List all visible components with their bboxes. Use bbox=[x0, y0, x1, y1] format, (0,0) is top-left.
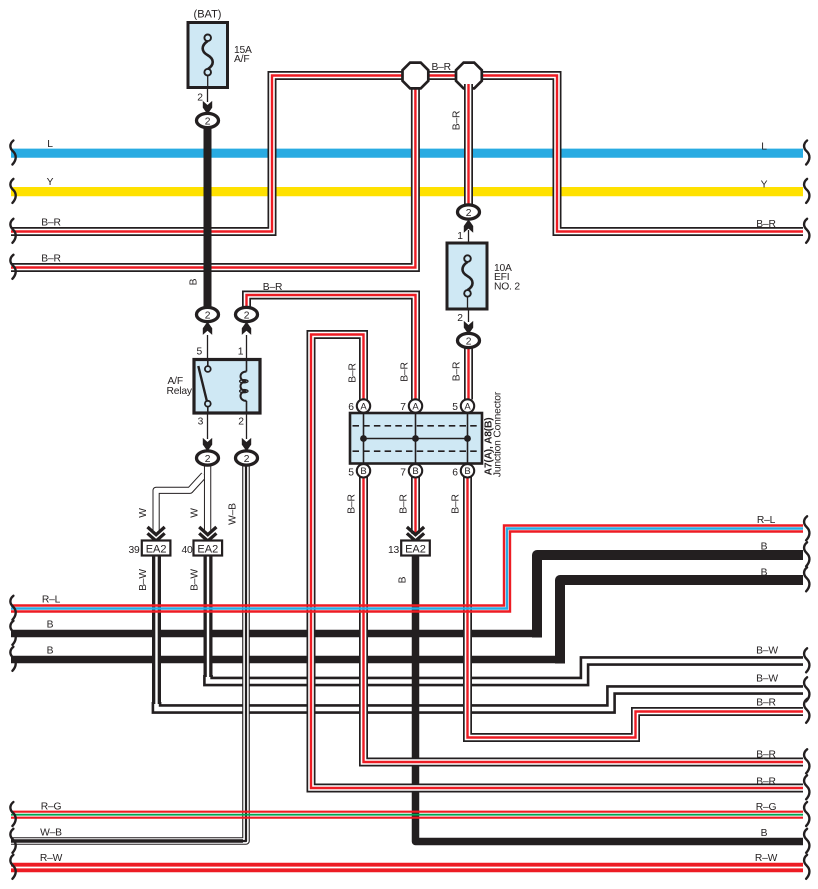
svg-text:1: 1 bbox=[457, 231, 463, 242]
junction pin circle 5(A) bbox=[461, 399, 474, 412]
svg-text:A: A bbox=[360, 401, 367, 412]
junction connector A7(A),A8(B) box bbox=[350, 413, 482, 464]
break symbol R-G bus left bbox=[10, 802, 15, 826]
svg-text:W: W bbox=[190, 508, 201, 518]
break symbol B-R bus 1 left bbox=[10, 219, 15, 243]
wire B bus B: left run, corner, right run bbox=[11, 656, 557, 664]
svg-text:2: 2 bbox=[457, 313, 463, 324]
svg-text:L: L bbox=[761, 142, 767, 153]
svg-text:B–R: B–R bbox=[756, 219, 775, 230]
svg-text:R–L: R–L bbox=[757, 515, 776, 526]
break symbol B bus B left bbox=[10, 647, 15, 671]
svg-text:B: B bbox=[360, 466, 366, 477]
svg-text:B–R: B–R bbox=[452, 111, 463, 130]
break symbol W-B bus left bbox=[10, 829, 15, 853]
svg-text:R–L: R–L bbox=[42, 595, 61, 606]
svg-text:B–R: B–R bbox=[431, 62, 450, 73]
wire B-R net into junction 6(A): up, left, down, right bus bbox=[311, 335, 803, 789]
junction dashed internal rows bbox=[353, 425, 480, 427]
svg-text:2: 2 bbox=[205, 310, 211, 321]
junction pin circle 6(A) bbox=[357, 399, 370, 412]
svg-text:B: B bbox=[47, 646, 54, 657]
svg-text:6: 6 bbox=[452, 468, 458, 479]
connector EA2 39 chevrons and box bbox=[148, 527, 165, 535]
break symbol B bus A right bbox=[804, 542, 809, 566]
wire B-R bus 2 (left bus rising to octagon J1) bbox=[11, 80, 415, 268]
break symbol Y bus right bbox=[804, 179, 809, 203]
A/F relay box bbox=[194, 360, 260, 414]
svg-text:B–R: B–R bbox=[451, 494, 462, 513]
svg-text:B: B bbox=[761, 568, 768, 579]
svg-text:B–W: B–W bbox=[190, 569, 201, 591]
svg-text:L: L bbox=[47, 139, 53, 150]
svg-text:EA2: EA2 bbox=[405, 543, 426, 555]
break symbol B-R 6A bus right bbox=[804, 775, 809, 799]
relay coil feed: up arrow into oval at pin 1 bbox=[246, 335, 248, 360]
wire Y bus (yellow) bbox=[11, 187, 803, 196]
svg-text:3: 3 bbox=[198, 417, 204, 428]
break symbol B-W bus 1 right bbox=[804, 648, 809, 672]
junction internal bus with nodes bbox=[364, 438, 468, 440]
wire B thick from fuse 15A down to relay feed oval bbox=[204, 125, 212, 310]
connector oval 2 below EFI fuse bbox=[458, 333, 480, 347]
break symbol B-W bus 2 right bbox=[804, 677, 809, 701]
break symbol R-W bus right bbox=[804, 855, 809, 879]
svg-text:A: A bbox=[412, 401, 419, 412]
svg-text:W–B: W–B bbox=[228, 503, 239, 525]
svg-text:Junction Connector: Junction Connector bbox=[493, 391, 504, 477]
junction pin circle 6(B) bbox=[461, 464, 474, 477]
break symbol R-L bus right bbox=[804, 516, 809, 540]
fuse 15A A/F box bbox=[188, 23, 228, 88]
svg-text:R–G: R–G bbox=[41, 802, 62, 813]
svg-text:B–R: B–R bbox=[756, 777, 775, 788]
svg-text:40: 40 bbox=[181, 545, 193, 556]
break symbol R-L bus left bbox=[10, 596, 15, 620]
pin 2 lead of EFI fuse with down arrow into oval bbox=[468, 309, 470, 322]
svg-text:R–W: R–W bbox=[755, 853, 778, 864]
wire B-R relay coil net: oval up, right, down to 7(A) bbox=[247, 295, 416, 400]
break symbol L bus right bbox=[804, 141, 809, 165]
svg-text:B–W: B–W bbox=[138, 569, 149, 591]
svg-text:B: B bbox=[761, 542, 768, 553]
svg-text:2: 2 bbox=[205, 116, 211, 127]
break symbol B-R bus 1 right bbox=[804, 219, 809, 243]
wire R-G bus (red/green/red) bbox=[11, 811, 803, 813]
EFI NO.2 fuse box bbox=[447, 243, 487, 309]
svg-text:7: 7 bbox=[400, 402, 406, 413]
svg-text:B–R: B–R bbox=[756, 750, 775, 761]
break symbol B bus A left bbox=[10, 621, 15, 645]
break symbol B-R bus 2 left bbox=[10, 255, 15, 279]
wire B-R bus 1 (left, top jumper, right) bbox=[11, 76, 803, 232]
svg-text:B–R: B–R bbox=[41, 254, 60, 265]
svg-text:B–R: B–R bbox=[41, 218, 60, 229]
svg-text:Y: Y bbox=[47, 177, 54, 188]
svg-text:B–R: B–R bbox=[399, 494, 410, 513]
fuse EFI symbol bbox=[462, 262, 472, 290]
svg-text:A/F: A/F bbox=[234, 54, 249, 65]
svg-text:B: B bbox=[761, 828, 768, 839]
connector EA2 13 chevrons and box bbox=[407, 527, 424, 535]
svg-text:B: B bbox=[464, 466, 470, 477]
oval 2 above EFI fuse with up arrow bbox=[468, 230, 470, 243]
wire W-B net from relay pin 2: down then left bus bbox=[11, 465, 246, 841]
svg-text:39: 39 bbox=[128, 545, 140, 556]
wire B-R from EFI fuse oval down to junction 5(A) bbox=[464, 345, 473, 400]
svg-text:2: 2 bbox=[205, 454, 211, 465]
relay feed: up arrow into oval at pin 5 bbox=[207, 335, 209, 360]
svg-text:R–G: R–G bbox=[756, 802, 777, 813]
svg-text:7: 7 bbox=[400, 468, 406, 479]
junction pin circle 7(B) bbox=[409, 464, 422, 477]
break symbol L bus left bbox=[10, 141, 15, 165]
svg-text:5: 5 bbox=[197, 347, 203, 358]
svg-text:W–B: W–B bbox=[40, 828, 62, 839]
octagon connector J1 bbox=[403, 63, 429, 89]
svg-text:6: 6 bbox=[348, 402, 354, 413]
svg-text:B: B bbox=[189, 278, 200, 285]
svg-text:2: 2 bbox=[244, 454, 250, 465]
svg-text:W: W bbox=[138, 508, 149, 518]
svg-text:B: B bbox=[412, 466, 418, 477]
break symbol B bus 13 right bbox=[804, 829, 809, 853]
break symbol B-R 6B bus right bbox=[804, 699, 809, 723]
wire B-R net from junction 6(B): down, right, up, right bus bbox=[468, 477, 804, 738]
relay switch contact bbox=[207, 360, 209, 367]
wire B-R from octagon J2 down to EFI fuse oval bbox=[464, 84, 473, 206]
svg-text:(BAT): (BAT) bbox=[194, 9, 222, 21]
wire R-W bus (red with white stripe) bbox=[11, 863, 803, 873]
connector EA2 40 chevrons and box bbox=[199, 527, 216, 535]
svg-text:2: 2 bbox=[244, 310, 250, 321]
svg-text:R–W: R–W bbox=[40, 853, 63, 864]
wire B bus A: left run, corner, right run bbox=[11, 630, 534, 638]
break symbol B-R 5B bus right bbox=[804, 749, 809, 773]
wire W straight from relay pin 3 oval to EA2 40 bbox=[204, 465, 211, 532]
svg-text:2: 2 bbox=[466, 208, 472, 219]
wire B thick from EA2 13 down then right bus bbox=[416, 556, 804, 842]
break symbol Y bus left bbox=[10, 179, 15, 203]
wire B-R from junction 7(B) to EA2 13 bbox=[411, 477, 420, 534]
svg-text:2: 2 bbox=[466, 336, 472, 347]
svg-text:B–R: B–R bbox=[347, 494, 358, 513]
svg-text:B: B bbox=[398, 576, 409, 583]
svg-text:B–R: B–R bbox=[400, 362, 411, 381]
wire R-L net: left bus, riser, right bus (red/blue/red) bbox=[11, 526, 803, 612]
svg-text:B–W: B–W bbox=[756, 674, 778, 685]
wire B-W net from EA2 39: down, right, up, right bus bbox=[157, 556, 804, 709]
pin 2 lead of fuse 15A with arrow into oval bbox=[207, 88, 209, 103]
svg-text:1: 1 bbox=[238, 347, 244, 358]
wire W pair from relay pin 3 oval: branch to EA2 39 bbox=[156, 475, 204, 532]
svg-text:EA2: EA2 bbox=[146, 543, 167, 555]
svg-text:B: B bbox=[47, 620, 54, 631]
svg-text:B–R: B–R bbox=[756, 698, 775, 709]
svg-text:Relay: Relay bbox=[167, 386, 193, 397]
svg-text:NO. 2: NO. 2 bbox=[494, 281, 520, 292]
fuse 15A symbol bbox=[203, 41, 213, 69]
junction pin circle 7(A) bbox=[409, 399, 422, 412]
connector oval 2 below fuse 15A bbox=[197, 113, 219, 127]
svg-text:5: 5 bbox=[452, 402, 458, 413]
relay pin 3 lead with down arrow into oval bbox=[207, 413, 209, 439]
relay pin 2 lead with down arrow into oval bbox=[246, 413, 248, 439]
relay coil bbox=[246, 360, 248, 372]
svg-text:13: 13 bbox=[388, 545, 400, 556]
wire B-W net from EA2 40: down, right, up, right bus bbox=[208, 556, 803, 682]
svg-text:B–R: B–R bbox=[452, 362, 463, 381]
break symbol B bus B right bbox=[804, 567, 809, 591]
svg-text:EA2: EA2 bbox=[197, 543, 218, 555]
break symbol R-W bus left bbox=[10, 855, 15, 879]
svg-text:2: 2 bbox=[238, 417, 244, 428]
wire L bus (blue) bbox=[11, 149, 803, 158]
svg-text:B–R: B–R bbox=[263, 282, 282, 293]
svg-text:B–R: B–R bbox=[348, 363, 359, 382]
break symbol R-G bus right bbox=[804, 802, 809, 826]
svg-text:B–W: B–W bbox=[756, 646, 778, 657]
svg-text:Y: Y bbox=[761, 180, 768, 191]
octagon connector J2 bbox=[456, 63, 482, 89]
wire B-R net from junction 5(B): down then right bus bbox=[364, 477, 804, 762]
svg-text:A: A bbox=[464, 401, 471, 412]
svg-text:2: 2 bbox=[197, 93, 203, 104]
svg-text:5: 5 bbox=[348, 468, 354, 479]
junction pin circle 5(B) bbox=[357, 464, 370, 477]
